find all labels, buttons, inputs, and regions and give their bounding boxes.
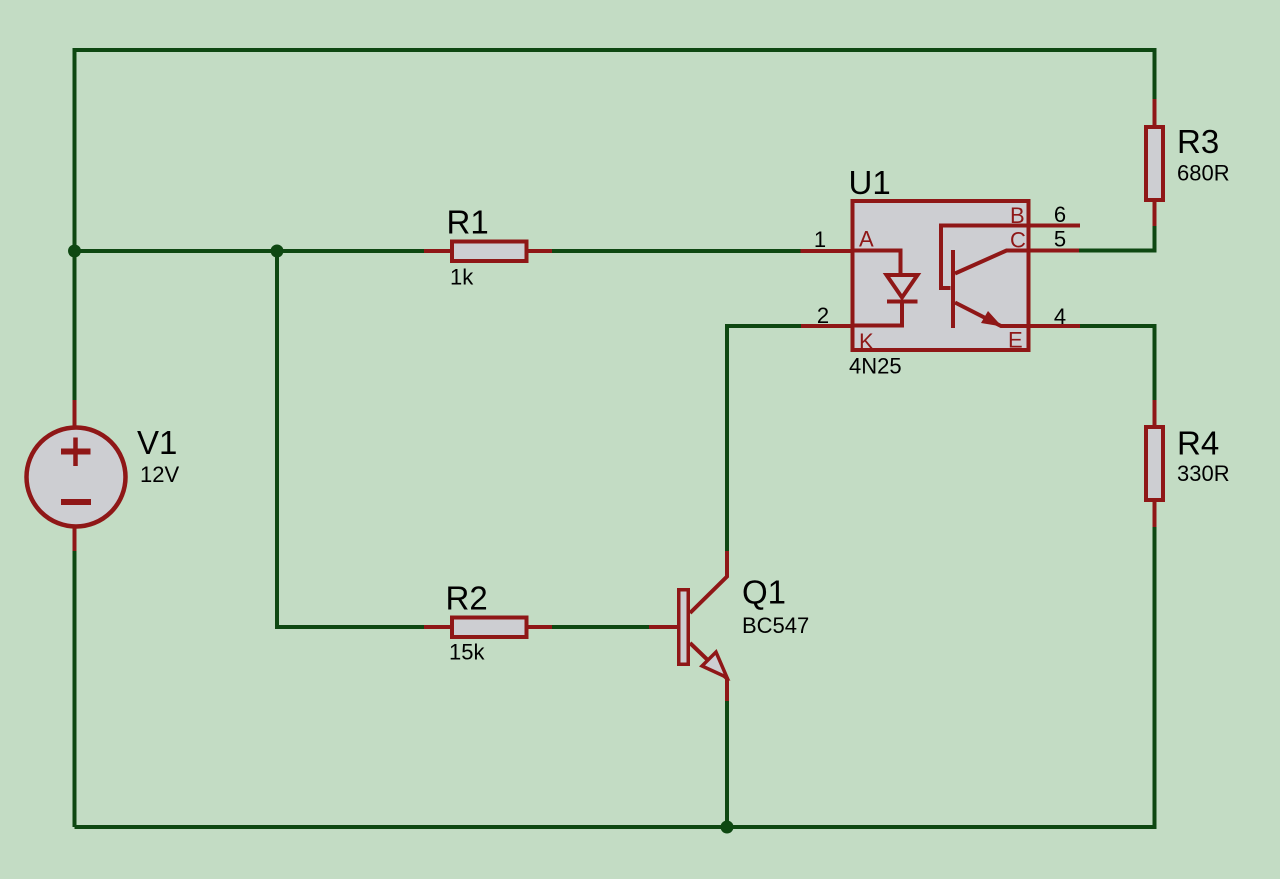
U1 LED diode triangle — [887, 275, 918, 298]
R4 body — [1146, 427, 1163, 500]
R3 top lead — [1153, 99, 1157, 125]
Q1 base bar — [679, 590, 689, 665]
optocoupler U1 — [801, 164, 1081, 379]
R1 left lead — [424, 249, 450, 253]
svg-text:15k: 15k — [449, 640, 485, 665]
R3 bottom lead — [1153, 202, 1157, 226]
svg-text:V1: V1 — [137, 424, 177, 461]
svg-text:R3: R3 — [1177, 123, 1219, 160]
wire R1 right to U1 pin1 — [552, 249, 801, 253]
wire top rail (V1 + to R3 top) — [75, 50, 1155, 251]
svg-text:B: B — [1010, 203, 1025, 228]
V1 circle body — [27, 428, 126, 527]
U1 LED cathode bar — [887, 300, 918, 304]
svg-text:K: K — [859, 329, 874, 354]
U1 phototransistor collector wire — [955, 251, 1029, 274]
R1 right lead — [528, 249, 552, 253]
node junction bottom rail / Q1 emitter — [721, 821, 734, 834]
wire Q1 collector up to U1 pin2 — [727, 326, 801, 551]
R4 bottom lead — [1153, 502, 1157, 527]
V1 bottom pin stub — [73, 528, 77, 551]
svg-text:E: E — [1008, 328, 1023, 353]
svg-text:1k: 1k — [450, 265, 474, 290]
svg-text:4N25: 4N25 — [849, 354, 902, 379]
resistor R1 — [424, 204, 552, 290]
svg-text:680R: 680R — [1177, 161, 1230, 186]
svg-text:330R: 330R — [1177, 461, 1230, 486]
node junction left rail / main wire — [68, 245, 81, 258]
svg-text:6: 6 — [1054, 202, 1066, 227]
transistor Q1 — [649, 551, 809, 701]
resistor R4 — [1146, 400, 1230, 527]
wire junction2 vertical down to R2 left — [277, 251, 424, 627]
svg-text:C: C — [1010, 228, 1026, 253]
svg-text:BC547: BC547 — [742, 613, 809, 638]
U1 pin 4 stub — [1029, 324, 1080, 328]
svg-text:U1: U1 — [849, 164, 891, 201]
resistor R2 — [424, 580, 552, 665]
svg-text:1: 1 — [814, 227, 826, 252]
R1 body — [452, 242, 527, 262]
U1 pin 1 stub — [801, 249, 854, 253]
voltage source V1 — [27, 400, 180, 551]
U1 LED cathode wire — [853, 301, 902, 326]
U1 LED anode wire — [853, 251, 901, 276]
U1 pin 5 stub — [1029, 249, 1079, 253]
U1 phototransistor emitter arrow — [981, 311, 1002, 327]
U1 phototransistor emitter wire — [955, 303, 1029, 327]
R4 top lead — [1153, 400, 1157, 425]
U1 phototransistor base bar — [951, 250, 955, 328]
R3 body — [1146, 127, 1163, 200]
U1 pin 2 stub — [801, 324, 853, 328]
R2 body — [452, 618, 527, 638]
Q1 collector lead — [690, 551, 727, 613]
svg-text:R2: R2 — [446, 580, 488, 617]
svg-text:4: 4 — [1054, 304, 1066, 329]
wire U1 pin4 to R4 top — [1080, 326, 1155, 400]
svg-text:12V: 12V — [140, 462, 179, 487]
svg-text:A: A — [859, 227, 874, 252]
Q1 emitter lead — [690, 643, 727, 701]
svg-text:2: 2 — [817, 303, 829, 328]
svg-text:R1: R1 — [447, 204, 489, 241]
svg-text:Q1: Q1 — [742, 574, 786, 611]
wire left rail upper (junction to V1 top) — [73, 251, 77, 400]
V1 minus sign — [61, 499, 91, 505]
U1 phototransistor base loop wire — [941, 226, 1029, 289]
V1 plus sign — [61, 449, 91, 455]
wire bottom rail (ground return to R4 bottom) — [75, 527, 1155, 827]
svg-text:5: 5 — [1054, 227, 1066, 252]
U1 body box — [853, 201, 1029, 350]
Q1 emitter arrow — [702, 652, 727, 678]
svg-text:R4: R4 — [1177, 425, 1219, 462]
R2 left lead — [424, 625, 450, 629]
node junction main wire / R2 branch — [271, 245, 284, 258]
resistor R3 — [1146, 99, 1230, 226]
wire left rail lower (V1 bottom to bottom rail) — [73, 551, 77, 827]
wire Q1 emitter down to bottom rail — [725, 701, 729, 827]
wire main horizontal to R1 left — [75, 249, 425, 253]
R2 right lead — [528, 625, 552, 629]
Q1 base lead — [649, 625, 677, 629]
V1 top pin stub — [73, 400, 77, 426]
U1 pin 6 stub — [1029, 224, 1080, 228]
wire R2 right to Q1 base — [552, 625, 649, 629]
wire U1 pin5 to R3 bottom — [1079, 226, 1155, 251]
